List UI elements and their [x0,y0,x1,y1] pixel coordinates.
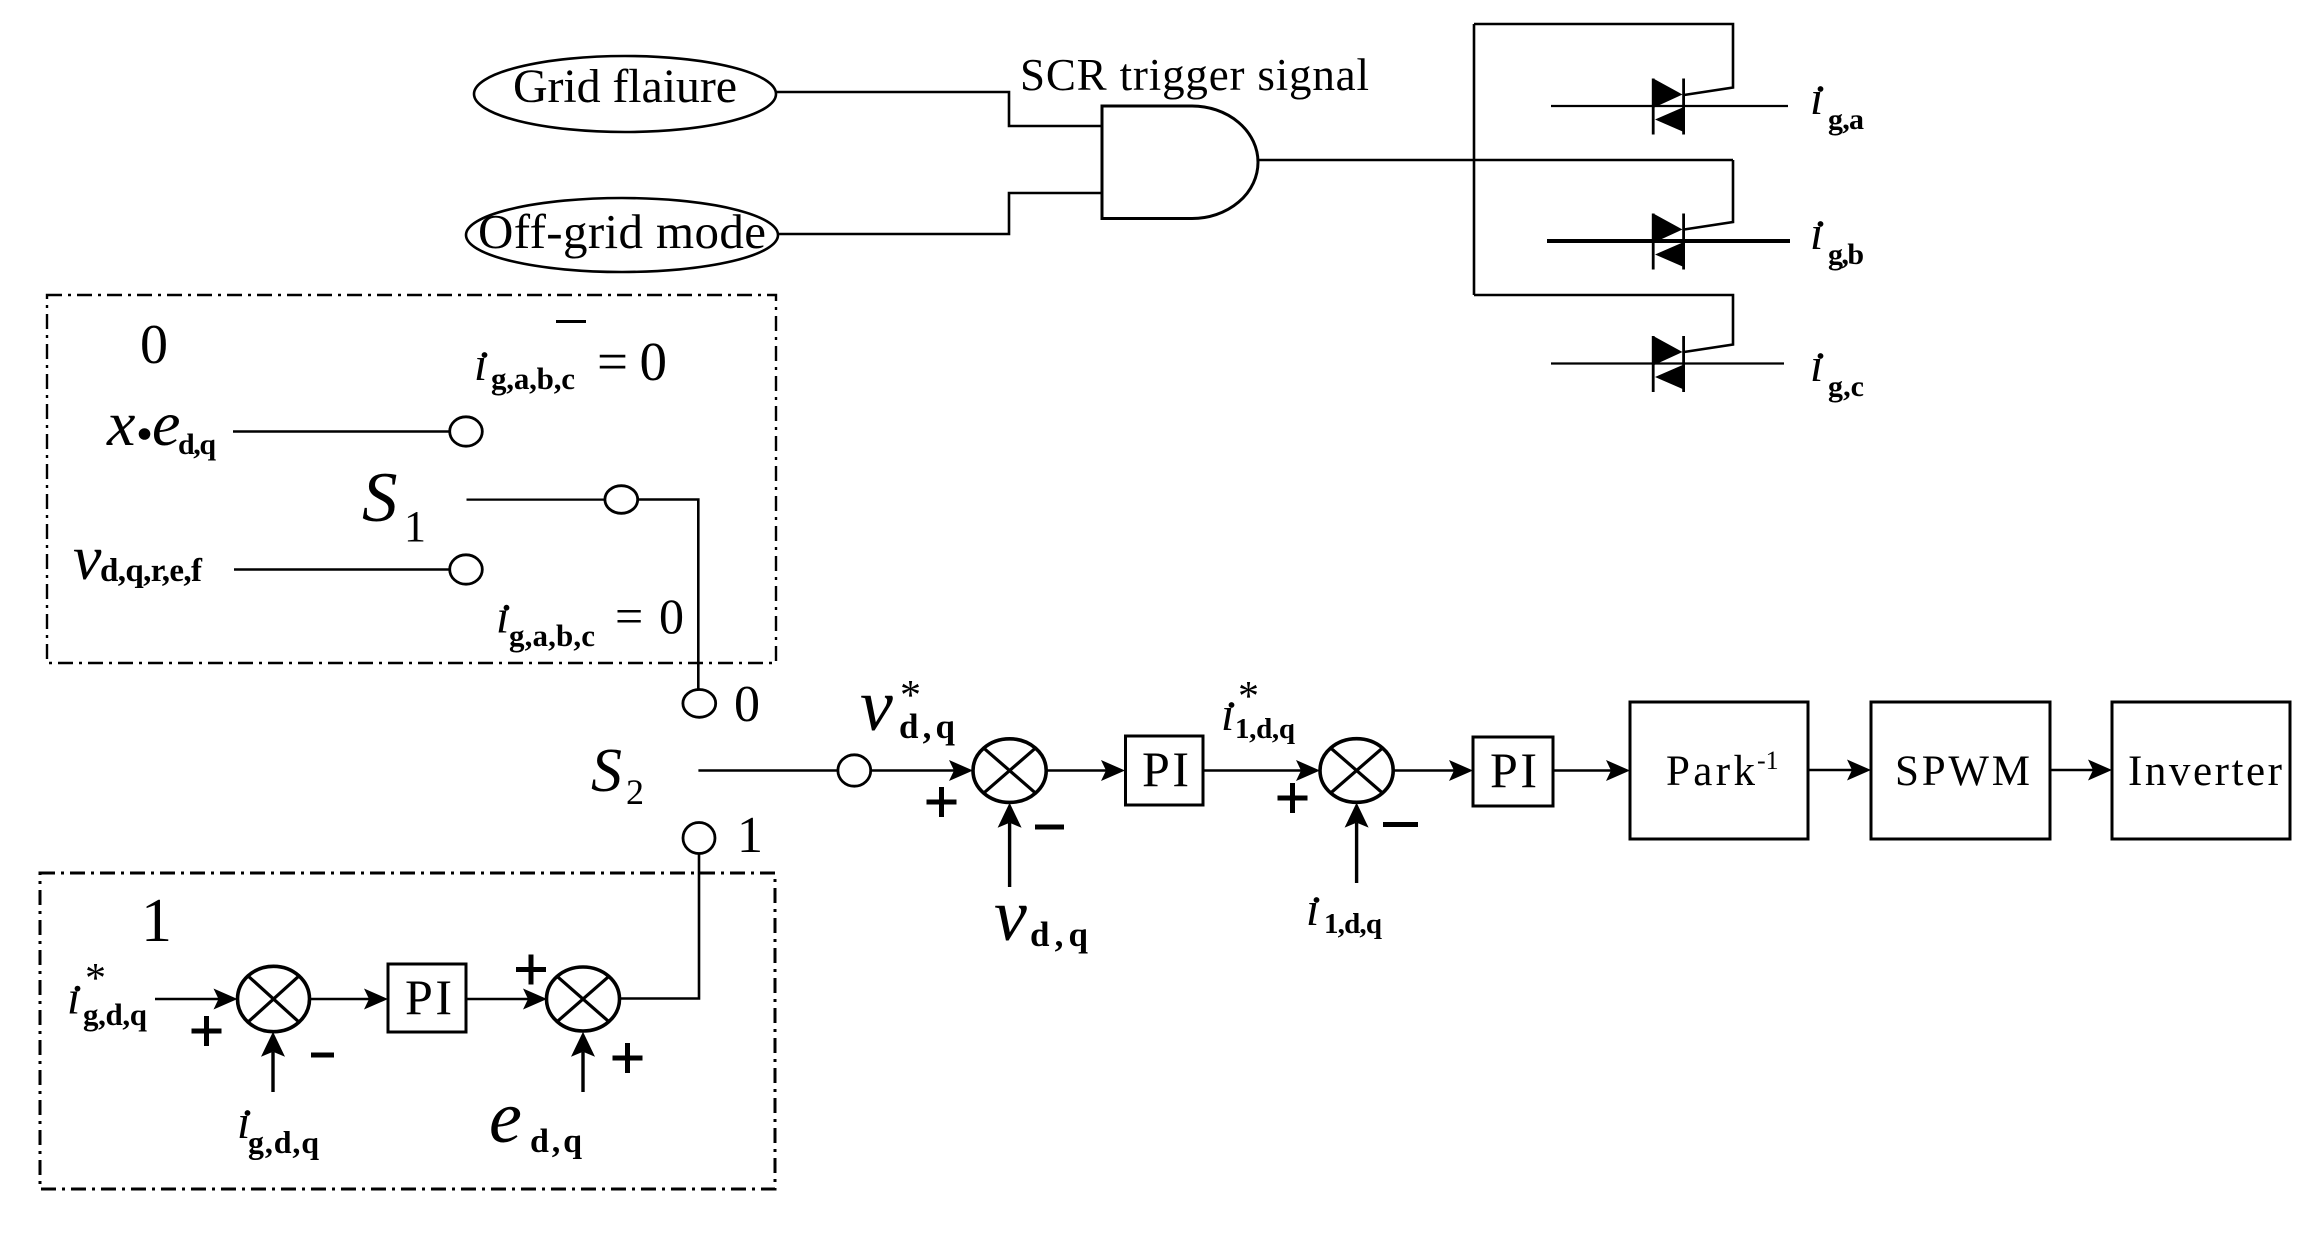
svg-text:g,d,q: g,d,q [83,997,147,1032]
label: i_g,a [1810,72,1864,136]
svg-text:g,a,b,c: g,a,b,c [509,618,595,653]
svg-text:0: 0 [140,314,168,376]
svg-text:e: e [489,1077,522,1159]
svg-text:d,q: d,q [178,428,216,461]
label: S1 [362,459,426,551]
wire: i*_g,d,q to summing junction J3 [155,998,219,1000]
PI block PI2 [1473,737,1553,806]
contact circle: S1 input 0 [450,417,483,446]
wire: SPWM to Inverter [2050,769,2093,772]
summing junction J4 [547,967,620,1031]
wire: Off-grid mode to AND gate input B [778,193,1102,234]
svg-text:g,d,q: g,d,q [248,1124,319,1160]
svg-text:g,a,b,c: g,a,b,c [491,361,575,396]
dash-dot box: S1 grid-connected mode 0 [47,295,776,663]
svg-text:-1: -1 [1757,746,1779,775]
wire: J1 to PI1 [1046,769,1106,772]
svg-text:x: x [106,388,135,459]
svg-text:PI: PI [405,969,452,1025]
wire: x*e_d,q to S1 contact 0 [233,430,450,432]
svg-text:ı: ı [67,972,80,1025]
block: SPWM [1871,702,2050,839]
wire: PI1 to summing junction J2 [1203,769,1301,772]
svg-text:1: 1 [141,887,172,955]
label: + at J4 feedforward [613,1043,643,1073]
SCR pair Q_b with phase b wire [1547,214,1790,270]
label: i_1,d,q feedback [1306,883,1382,940]
label: v_d,q feedback [994,875,1089,957]
svg-text:g,b: g,b [1828,238,1864,271]
svg-text:d,q: d,q [1030,915,1089,954]
svg-text:v: v [860,665,893,747]
svg-text:g,c: g,c [1828,370,1864,403]
svg-text:Inverter: Inverter [2128,748,2282,795]
svg-text:SPWM: SPWM [1895,748,2030,795]
wire: mode-1 box output up to S2 contact 1 [620,854,700,999]
svg-text:0: 0 [734,676,760,733]
label: + at J1 [927,787,957,817]
wire: i_1,d,q feedback into J2 [1345,803,1369,883]
contact circle: S2 common [838,755,871,786]
svg-text:ı: ı [474,338,487,391]
svg-text:ı: ı [496,591,509,644]
label: i*_1,d,q [1221,674,1295,745]
svg-text:g,a: g,a [1828,103,1864,136]
wire: PI3 to summing junction J4 [466,998,528,1000]
svg-text:Off-grid mode: Off-grid mode [478,204,766,259]
terminal: Off-grid mode input ellipse [466,198,778,272]
SCR pair Q_a with phase a wire [1551,79,1788,135]
wire: bottom branch to SCR pair c gate [1474,295,1733,352]
svg-text:e: e [152,388,180,459]
label: + at J4 input [516,955,546,985]
svg-text:S: S [362,459,398,537]
label: i*_g,d,q reference [67,956,147,1032]
svg-text:SCR trigger signal: SCR trigger signal [1020,50,1369,100]
label: + at J2 [1278,783,1308,813]
wire: J2 to PI2 [1393,769,1454,772]
svg-text:PI: PI [1490,742,1537,798]
wire: S2 common to summing junction J1 [871,769,954,771]
svg-text:d,q: d,q [530,1123,582,1160]
label: - at J2 [1383,822,1418,827]
label: i_g,a,b,c = 0 (lower) [496,588,684,653]
svg-text:ı: ı [1810,207,1823,260]
summing junction J2 (current loop) [1320,739,1393,803]
contact circle: S2 input 1 [683,823,715,854]
wire: Grid failure to AND gate input A [776,92,1102,126]
label: i_g,d,q feedback [237,1096,319,1160]
label: x*e_d,q [106,388,216,461]
svg-text:v: v [73,522,102,593]
wire: J3 to PI3 [310,998,370,1000]
wire: v_d,q feedback into J1 [998,803,1022,887]
label: e_d,q feedforward [489,1077,582,1160]
svg-text:1,d,q: 1,d,q [1324,908,1382,940]
label: i_g,c [1810,339,1864,403]
svg-text:2: 2 [626,772,644,812]
label: + at J3 [192,1016,222,1046]
block: Inverter [2112,702,2290,839]
wire: S1 common to S2 contact 0 [638,500,699,689]
svg-text:Park: Park [1666,748,1756,795]
wire: PI2 to Park block [1553,769,1611,772]
label: - at J3 [311,1053,334,1058]
wire: top branch to SCR pair a gate [1474,24,1733,95]
svg-text:d,q,r,e,f: d,q,r,e,f [100,553,203,589]
block: inverse Park transform [1630,702,1808,839]
label: S2 [591,737,644,812]
wire: AND gate output to thyristor gate bus [1258,159,1733,162]
contact circle: S1 input 1 [450,555,483,584]
svg-text:ı: ı [1810,72,1823,125]
wire: Park to SPWM [1808,769,1852,772]
wire: S1 lever [467,499,606,501]
summing junction J3 [238,966,310,1031]
wire: i_g,d,q feedback into J3 [261,1032,285,1092]
wire: middle branch to SCR pair b gate [1684,160,1733,230]
contact circle: S1 common [605,486,638,514]
dash-dot box: off-grid mode 1 [40,873,775,1189]
svg-text:1: 1 [737,807,763,864]
svg-text:ı: ı [1221,688,1234,741]
AND gate U1 [1102,106,1258,219]
svg-text:= 0: = 0 [597,331,667,392]
terminal: Grid failure input ellipse [474,56,776,132]
label: i_g,a,b,c(bar) = 0 [474,322,667,397]
wire: e_d,q feedforward into J4 [571,1032,595,1092]
label: v*_d,q reference [860,665,956,747]
wire: gate bus vertical [1473,24,1476,295]
svg-text:ı: ı [1810,339,1823,392]
PI block PI1 [1126,736,1204,805]
svg-text:= 0: = 0 [615,588,684,644]
svg-text:ı: ı [1306,883,1319,936]
svg-text:*: * [85,956,106,1002]
summing junction J1 (voltage loop) [973,739,1046,803]
wire: v_d,q,r,e,f to S1 contact 1 [234,568,450,570]
PI block PI3 [388,964,466,1032]
wire: S2 lever [698,769,838,771]
contact circle: S2 input 0 [683,690,716,718]
svg-text:d,q: d,q [899,707,956,746]
svg-text:1: 1 [404,502,426,551]
svg-text:PI: PI [1142,741,1189,797]
svg-text:1,d,q: 1,d,q [1235,713,1295,745]
svg-text:S: S [591,737,622,805]
svg-text:Grid flaiure: Grid flaiure [513,60,737,113]
label: - at J1 [1035,825,1064,830]
SCR pair Q_c with phase c wire [1551,336,1784,392]
label: i_g,b [1810,207,1864,271]
label: v_d,q,r,e,f [73,522,203,593]
svg-text:v: v [994,875,1027,957]
